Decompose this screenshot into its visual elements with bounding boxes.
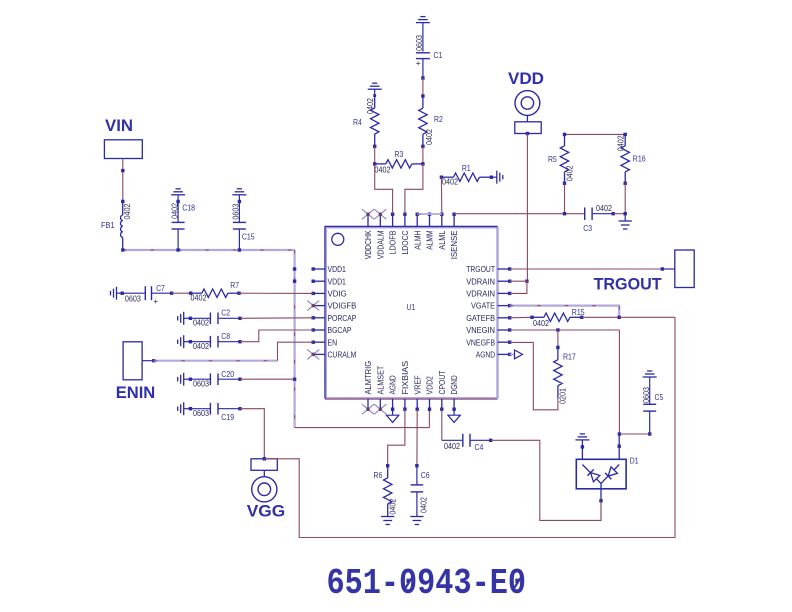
wire VIN bus horizontal — [123, 249, 295, 251]
wire C4 to D1 — [491, 440, 601, 520]
svg-text:VDIG: VDIG — [328, 290, 347, 299]
label R16 — [633, 153, 646, 163]
U1 top pin ALMM — [428, 213, 431, 227]
label R2 — [434, 114, 443, 124]
value 0603 of C5 — [642, 387, 651, 403]
svg-text:0603: 0603 — [232, 203, 241, 219]
svg-text:VGATE: VGATE — [471, 302, 495, 311]
value 0201 of R17 — [558, 388, 567, 404]
label C1 — [434, 50, 443, 60]
U1 top pin VDDALM — [379, 213, 382, 227]
svg-text:0402: 0402 — [596, 204, 612, 213]
value 0603 of C15 — [232, 203, 241, 219]
junction C15-bus — [238, 248, 241, 251]
U1 left pin PORCAP — [312, 316, 326, 319]
U1 left pin VDIG — [312, 292, 326, 295]
connector VIN — [104, 140, 142, 159]
ground above C15 — [232, 189, 246, 202]
label C7 — [156, 283, 165, 293]
power VGG label — [247, 501, 286, 520]
resistor R3 — [373, 160, 425, 168]
value 0402 of C3 — [596, 204, 612, 213]
U1 bottom pin DGND — [452, 399, 455, 411]
svg-text:+: + — [416, 59, 421, 68]
U1 pin name VDD1 — [328, 277, 347, 286]
value 0603 of C7 — [125, 295, 141, 304]
label C8 — [221, 331, 230, 341]
wire R3 to LDOFB — [375, 164, 393, 214]
wire R1 to ALML — [440, 177, 442, 214]
svg-text:C4: C4 — [475, 442, 484, 452]
resistor R17 — [554, 330, 562, 398]
U1 pin name GATEFB right — [466, 314, 495, 323]
svg-text:ALMH: ALMH — [413, 230, 422, 249]
svg-text:FIXBIAS: FIXBIAS — [401, 360, 410, 394]
svg-text:ALML: ALML — [438, 230, 447, 250]
connector ENIN label — [116, 383, 156, 402]
wire R4 to R3 — [374, 146, 376, 164]
svg-text:VDDALM: VDDALM — [376, 230, 385, 259]
wire D1 bottom — [599, 483, 602, 520]
U1 top pin ALML — [440, 213, 443, 227]
value 0402 of R4 — [366, 98, 375, 114]
U1 pin name ALMSET bottom — [376, 366, 385, 395]
label R17 — [563, 351, 576, 361]
U1 pin name VDD2 bottom — [426, 376, 435, 395]
value 0402 of C2 — [193, 318, 209, 327]
resistor R16 — [621, 133, 629, 185]
connector ENIN — [123, 342, 142, 380]
svg-text:EN: EN — [328, 338, 338, 347]
label C18 — [182, 203, 195, 213]
capacitor C5 — [643, 383, 656, 435]
U1 pin name ALMM top — [426, 230, 435, 249]
U1 pin name BGCAP — [328, 326, 352, 335]
svg-text:0402: 0402 — [442, 178, 458, 187]
svg-text:VDD: VDD — [508, 69, 544, 88]
svg-text:VREF: VREF — [413, 375, 422, 394]
U1 top pin ISENSE — [452, 213, 455, 227]
label C15 — [242, 232, 255, 242]
svg-text:DGND: DGND — [450, 375, 459, 394]
U1 right pin AGND — [498, 353, 512, 356]
svg-text:R7: R7 — [230, 280, 239, 290]
resistor R6 — [384, 464, 392, 516]
svg-text:R3: R3 — [395, 149, 404, 159]
svg-text:R2: R2 — [434, 114, 443, 124]
value 0402 of C8 — [193, 342, 209, 351]
svg-text:0402: 0402 — [375, 166, 391, 175]
svg-text:0402: 0402 — [616, 135, 625, 151]
diode D1 elements — [582, 465, 619, 484]
svg-text:C7: C7 — [156, 283, 165, 293]
value 0603 of C20 — [193, 380, 209, 389]
svg-text:VGG: VGG — [247, 501, 286, 520]
svg-text:PORCAP: PORCAP — [328, 314, 357, 323]
svg-text:VDRAIN: VDRAIN — [466, 290, 495, 299]
no-connect X ALMTRIG — [362, 404, 374, 414]
ground below C6 — [410, 517, 423, 525]
svg-text:0603: 0603 — [193, 380, 209, 389]
U1 right pin VDRAIN — [498, 280, 512, 283]
label C5 — [655, 392, 664, 402]
capacitor C8 with ground — [178, 335, 242, 348]
wire R3 to LDOCC — [405, 164, 423, 214]
wire D1 right pin — [618, 434, 621, 465]
U1 left pin VDD1 — [312, 280, 326, 283]
svg-text:ALMM: ALMM — [426, 230, 435, 249]
ground right of R1 — [491, 171, 502, 184]
svg-text:VNEGIN: VNEGIN — [466, 326, 495, 335]
svg-text:0402: 0402 — [425, 129, 434, 145]
junction FB1-bus — [121, 248, 124, 251]
resistor R4 — [371, 94, 379, 148]
capacitor C6 — [411, 466, 424, 516]
title 651-0943-E0 — [327, 563, 527, 604]
U1 left pin BGCAP — [312, 328, 326, 331]
connector VGG rect — [251, 459, 277, 471]
wire R5 to ISENSE bus — [564, 183, 566, 213]
junction bus-C20 — [293, 378, 296, 381]
wire ALMH-ALMM-ALML — [417, 213, 442, 215]
svg-text:ALMTRIG: ALMTRIG — [364, 361, 373, 395]
wire VREF to C6 — [415, 409, 418, 467]
U1 pin name LDOCC top — [401, 230, 410, 254]
U1 bottom pin ALMTRIG — [366, 399, 369, 411]
svg-text:0402: 0402 — [170, 203, 179, 219]
AGND arrow right side — [510, 350, 523, 359]
label C19 — [221, 412, 234, 422]
wire C3 to ground — [613, 212, 627, 215]
svg-text:ENIN: ENIN — [116, 383, 156, 402]
U1 bottom pin CPOUT — [440, 399, 443, 411]
wire VGATE — [510, 306, 620, 318]
U1 pin name ALML top — [438, 230, 447, 250]
U1 pin name ISENSE top — [450, 230, 459, 259]
label R1 — [462, 163, 471, 173]
resistor R1 — [440, 173, 493, 181]
wire ENIN to EN — [142, 342, 313, 362]
U1 top pin VDDCHK — [366, 213, 369, 227]
svg-text:CURALM: CURALM — [328, 351, 357, 360]
svg-text:C1: C1 — [434, 50, 443, 60]
svg-text:0603: 0603 — [193, 409, 209, 418]
capacitor C15 — [233, 200, 246, 250]
ground above C18 — [171, 189, 185, 202]
label C6 — [421, 470, 430, 480]
U1 right pin TRGOUT — [498, 267, 512, 270]
value 0402 of R16 — [616, 135, 625, 151]
capacitor C20 with ground — [178, 373, 242, 386]
svg-text:0402: 0402 — [193, 342, 209, 351]
U1 left pin CURALM — [312, 353, 326, 356]
no-connect X VDDALM — [374, 209, 386, 219]
resistor R2 — [419, 94, 427, 148]
connector TRGOUT label — [594, 275, 663, 294]
wire R2 to R3 — [422, 146, 424, 164]
wire C2 to PORCAP — [240, 317, 313, 320]
value 0402 of R6 — [388, 498, 397, 514]
svg-text:C2: C2 — [221, 308, 230, 318]
U1 pin name DGND bottom — [450, 375, 459, 394]
label R4 — [353, 117, 362, 127]
value 0402 of C6 — [419, 497, 428, 513]
U1 right pin GATEFB — [498, 316, 512, 319]
label C20 — [221, 369, 234, 379]
U1 pin name VDDALM top — [376, 230, 385, 259]
capacitor C2 with ground — [178, 312, 242, 325]
value 0402 of R1 — [442, 178, 458, 187]
wire junction to VGG loop — [619, 316, 675, 318]
junction VDD rect — [526, 132, 529, 135]
ground above C1 — [416, 17, 430, 29]
op-amp U1 body — [325, 227, 498, 399]
U1 right pin VNEGIN — [498, 328, 512, 331]
svg-text:R16: R16 — [633, 153, 646, 163]
DGND arrow below DGND pin — [448, 409, 460, 422]
AGND arrow below AGND pin — [386, 409, 398, 422]
plus sign C1 — [416, 59, 421, 68]
capacitor C1 polarized — [416, 29, 430, 80]
wire VGG to VGATE loop — [264, 317, 675, 537]
U1 left pin VDD1 — [312, 267, 326, 270]
svg-text:VDD2: VDD2 — [426, 376, 435, 395]
U1 pin-1 marker circle — [332, 233, 344, 245]
wire TRGOUT — [510, 267, 675, 270]
svg-text:VDDCHK: VDDCHK — [364, 230, 373, 259]
U1 pin name VDRAIN right — [466, 277, 495, 286]
value 0402 of R5 — [566, 165, 575, 181]
inductor FB1 — [121, 201, 123, 249]
U1 bottom pin VREF — [416, 399, 419, 411]
junction bus-VDD1b — [293, 280, 296, 283]
ground above C5 — [643, 371, 657, 383]
U1 pin name VDIG — [328, 290, 347, 299]
U1 left pin EN — [312, 341, 326, 344]
U1 pin name ALMTRIG bottom — [364, 361, 373, 395]
U1 top pin LDOCC — [403, 213, 406, 227]
capacitor C19 with ground — [178, 402, 242, 415]
U1 bottom pin ALMSET — [379, 399, 382, 411]
junction VGATE-R15 — [618, 316, 621, 319]
resistor R15 — [530, 313, 583, 321]
U1 pin name VNEGFB right — [466, 338, 495, 347]
value 0402 of C18 — [170, 203, 179, 219]
svg-text:0603: 0603 — [125, 295, 141, 304]
wire C1 to R2 — [422, 78, 424, 96]
junction bus-VDD1a — [293, 267, 296, 270]
svg-text:0402: 0402 — [566, 165, 575, 181]
label U1 — [407, 302, 416, 312]
plus sign C7 — [153, 297, 158, 306]
connector VDD rect — [515, 122, 541, 134]
svg-text:R15: R15 — [572, 307, 585, 317]
U1 top pin LDOFB — [391, 213, 394, 227]
ground below R6 — [381, 517, 394, 525]
wire R15 to junction — [582, 316, 619, 318]
svg-text:AGND: AGND — [476, 351, 495, 360]
U1 pin name LDOFB top — [389, 230, 398, 254]
wire R5-R16 top rail — [565, 133, 626, 135]
U1 pin name VDD1 — [328, 265, 347, 274]
svg-text:R4: R4 — [353, 117, 362, 127]
wire ISENSE bus — [454, 212, 585, 215]
U1 bottom pin VDD2 — [428, 399, 431, 411]
U1 pin name FIXBIAS bottom — [401, 360, 410, 394]
U1 pin name VDRAIN right — [466, 290, 495, 299]
U1 pin name EN — [328, 338, 338, 347]
svg-text:R17: R17 — [563, 351, 576, 361]
label R5 — [548, 154, 557, 164]
wire D1 left pin — [581, 447, 583, 465]
svg-text:LDOCC: LDOCC — [401, 230, 410, 254]
no-connect X VDIGFB — [307, 301, 319, 311]
svg-text:VNEGFB: VNEGFB — [466, 338, 495, 347]
U1 pin name TRGOUT right — [466, 265, 495, 274]
wire FIXBIAS to R6 — [388, 409, 405, 465]
svg-text:TRGOUT: TRGOUT — [594, 275, 663, 294]
junction VGG top — [263, 457, 266, 460]
U1 left pin VDIGFB — [312, 304, 326, 307]
svg-text:FB1: FB1 — [101, 220, 115, 230]
label D1 — [630, 456, 639, 466]
wire VDD down to VDRAIN — [526, 134, 528, 282]
value 0402 of FB1 — [123, 203, 132, 219]
wire C8 to BGCAP — [240, 330, 313, 342]
U1 right pin VGATE — [498, 304, 512, 307]
svg-text:C20: C20 — [221, 369, 234, 379]
power VGG symbol — [252, 470, 277, 502]
wire C19 to VGG — [240, 409, 264, 459]
U1 top pin ALMH — [416, 213, 419, 227]
power VDD symbol — [515, 91, 540, 122]
wire CPOUT to C4 — [442, 409, 463, 440]
U1 right pin VNEGFB — [498, 341, 512, 344]
value 0402 of R15 — [533, 319, 549, 328]
wire bus under IC to VDD2 — [295, 409, 430, 427]
svg-text:BGCAP: BGCAP — [328, 326, 352, 335]
U1 pin name PORCAP — [328, 314, 357, 323]
U1 pin name VREF bottom — [413, 375, 422, 394]
svg-text:C5: C5 — [655, 392, 664, 402]
wire VNEGIN — [510, 328, 620, 331]
U1 bottom pin FIXBIAS — [403, 399, 406, 411]
capacitor C4 — [463, 434, 493, 447]
svg-text:C8: C8 — [221, 331, 230, 341]
value 0603 of C19 — [193, 409, 209, 418]
power VDD label — [508, 69, 544, 88]
svg-text:U1: U1 — [407, 302, 416, 312]
connector TRGOUT — [675, 250, 694, 288]
svg-text:0402: 0402 — [191, 294, 207, 303]
junction C18-bus — [176, 248, 179, 251]
svg-text:TRGOUT: TRGOUT — [466, 265, 495, 274]
U1 pin name ALMH top — [413, 230, 422, 249]
label C2 — [221, 308, 230, 318]
svg-text:VDD1: VDD1 — [328, 265, 347, 274]
svg-text:GATEFB: GATEFB — [466, 314, 495, 323]
wire C20 to bus — [240, 378, 295, 380]
svg-text:C19: C19 — [221, 412, 234, 422]
svg-text:C3: C3 — [583, 223, 592, 233]
label R15 — [572, 307, 585, 317]
svg-text:651-0943-E0: 651-0943-E0 — [327, 563, 527, 604]
svg-text:R1: R1 — [462, 163, 471, 173]
svg-text:VDD1: VDD1 — [328, 277, 347, 286]
wire VIN to FB1 — [121, 159, 124, 204]
wire C5 to VNEGIN line — [619, 433, 649, 435]
wire R16 down — [624, 183, 626, 213]
wire left vertical bus — [294, 250, 296, 428]
svg-text:LDOFB: LDOFB — [389, 230, 398, 254]
wire C7 to R7 — [172, 292, 191, 294]
svg-text:0402: 0402 — [533, 319, 549, 328]
wire VNEGIN down to D1 — [618, 330, 621, 436]
svg-text:C6: C6 — [421, 470, 430, 480]
value 0402 of C4 — [444, 442, 460, 451]
U1 pin name AGND right — [476, 351, 495, 360]
svg-text:AGND: AGND — [389, 375, 398, 394]
label C4 — [475, 442, 484, 452]
svg-text:ALMSET: ALMSET — [376, 366, 385, 395]
svg-text:+: + — [153, 297, 158, 306]
ground below C3 — [619, 214, 632, 229]
no-connect X ALMSET — [374, 404, 386, 414]
U1 pin name VGATE right — [471, 302, 495, 311]
ground above R4 — [368, 83, 382, 95]
capacitor C3 — [585, 207, 615, 220]
svg-text:R5: R5 — [548, 154, 557, 164]
svg-text:D1: D1 — [630, 456, 639, 466]
value 0402 of R2 — [425, 129, 434, 145]
svg-text:0402: 0402 — [123, 203, 132, 219]
value 0402 of R7 — [191, 294, 207, 303]
connector VIN label — [105, 116, 133, 135]
U1 pin name VNEGIN right — [466, 326, 495, 335]
junction VDD-VDRAIN — [525, 280, 528, 283]
U1 pin name CPOUT bottom — [438, 371, 447, 395]
label R6 — [374, 470, 383, 480]
svg-text:0402: 0402 — [388, 498, 397, 514]
svg-text:R6: R6 — [374, 470, 383, 480]
svg-text:VIN: VIN — [105, 116, 133, 135]
wire VDRAIN loop — [510, 281, 527, 293]
svg-text:0201: 0201 — [558, 388, 567, 404]
resistor R5 — [560, 133, 568, 185]
svg-text:C15: C15 — [242, 232, 255, 242]
svg-text:0402: 0402 — [193, 318, 209, 327]
svg-text:0402: 0402 — [444, 442, 460, 451]
svg-text:C18: C18 — [182, 203, 195, 213]
wire GATEFB to R15 — [510, 316, 532, 319]
U1 pin name AGND bottom — [389, 375, 398, 394]
no-connect X VDDCHK — [362, 209, 374, 219]
label R3 — [395, 149, 404, 159]
U1 pin name CURALM — [328, 351, 357, 360]
ground left of C7 — [111, 287, 124, 300]
capacitor C7 polarized — [122, 286, 173, 300]
ground above D1 — [575, 434, 589, 449]
resistor R7 — [189, 289, 241, 297]
diode D1 body — [576, 459, 626, 489]
no-connect X CURALM — [307, 349, 319, 359]
label C3 — [583, 223, 592, 233]
U1 pin name VDDCHK top — [364, 230, 373, 259]
svg-text:ISENSE: ISENSE — [450, 230, 459, 259]
svg-text:VDIGFB: VDIGFB — [328, 302, 357, 311]
svg-text:0402: 0402 — [419, 497, 428, 513]
svg-text:VDRAIN: VDRAIN — [466, 277, 495, 286]
